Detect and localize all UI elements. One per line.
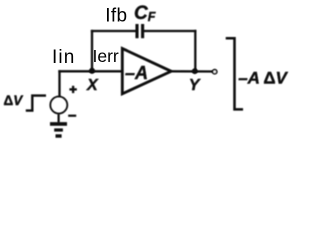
capacitor CF plates xyxy=(137,24,143,38)
wire: feedback top left segment to capacitor xyxy=(92,30,136,32)
svg-text:ΔV: ΔV xyxy=(4,93,24,108)
source minus sign xyxy=(68,115,76,117)
svg-text:CF: CF xyxy=(134,3,156,24)
ground xyxy=(50,114,67,136)
label Ierr (error current) on white box xyxy=(94,47,120,65)
svg-text:Iin: Iin xyxy=(52,47,75,68)
voltage source V1 circle xyxy=(50,97,67,114)
input step waveform symbol xyxy=(27,96,45,111)
output step waveform symbol (falling step, amplitude -A dV) xyxy=(227,38,242,109)
wire: feedback loop left vertical from node X up xyxy=(91,31,93,71)
output open terminal xyxy=(213,70,217,74)
svg-text:–A ΔV: –A ΔV xyxy=(238,68,288,87)
svg-text:Y: Y xyxy=(189,77,201,94)
wire: feedback top right segment from capacitor xyxy=(144,30,195,32)
svg-text:–A: –A xyxy=(125,63,148,83)
svg-text:Ierr: Ierr xyxy=(93,46,119,66)
wire: feedback right vertical down to node Y xyxy=(194,31,196,71)
node Y junction dot xyxy=(192,68,198,74)
node X junction dot xyxy=(89,68,95,74)
wire: main input wire from source corner to amplifier input xyxy=(60,70,122,72)
source plus sign xyxy=(69,86,76,93)
svg-text:Ifb: Ifb xyxy=(105,5,127,26)
op-amp U1 (gain -A) triangle xyxy=(122,49,171,94)
svg-text:X: X xyxy=(86,77,99,94)
wire: left branch vertical down to source xyxy=(58,71,60,96)
wire: amplifier output to terminal xyxy=(171,70,212,72)
